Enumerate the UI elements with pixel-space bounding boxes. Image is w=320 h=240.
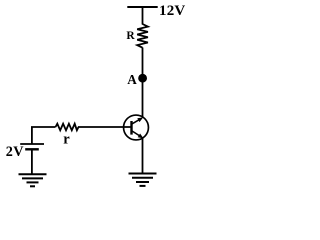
supply rail bar (12V) [127,6,157,8]
resistor r [56,124,79,131]
transistor Q1 body [124,115,149,140]
base wire from resistor r to base bar [78,126,132,128]
wire battery to resistor r [32,127,56,144]
resistor R [137,24,148,48]
svg-text:R: R [126,30,135,42]
wire rail to resistor R [142,7,144,25]
battery V1 long plate [20,143,44,145]
transistor Q1 collector diagonal [132,120,140,124]
ground (battery) [19,174,47,186]
svg-text:12V: 12V [159,3,185,19]
node A [138,74,147,83]
svg-text:A: A [127,72,137,87]
transistor Q1 emitter diagonal [132,131,140,136]
svg-text:2V: 2V [6,144,24,160]
svg-text:r: r [63,132,70,148]
wire R to transistor collector [142,48,144,118]
ground (emitter) [129,174,157,186]
battery wire to ground [31,149,33,173]
emitter wire to ground [142,138,144,173]
transistor Q1 base bar [130,121,132,135]
battery V1 short plate [25,148,39,150]
